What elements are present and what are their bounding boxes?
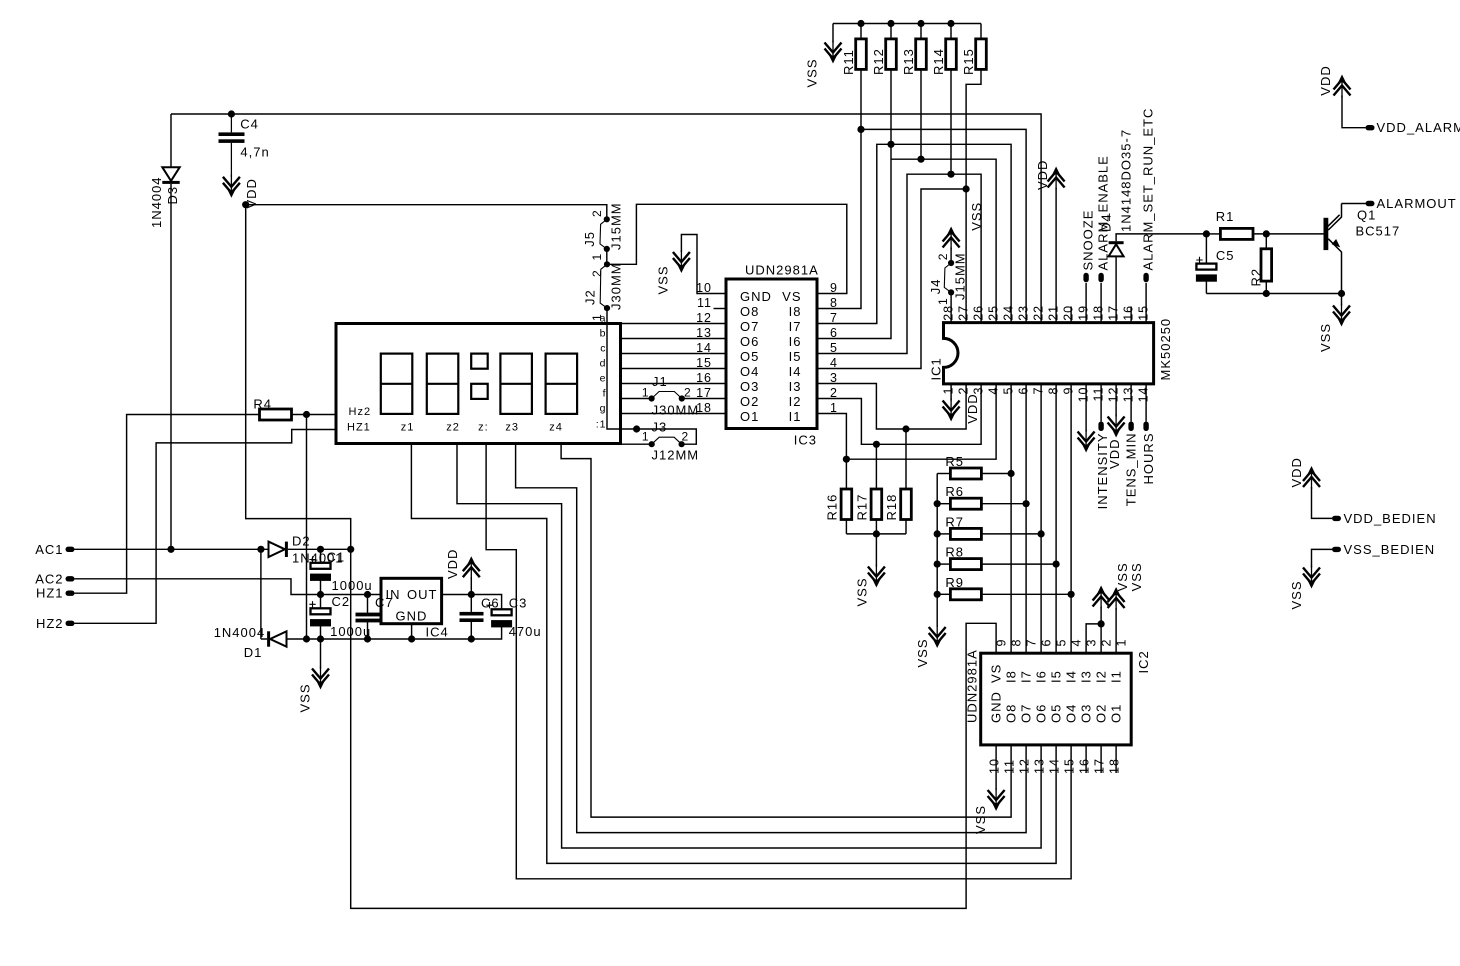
svg-text:IC2: IC2: [1136, 650, 1151, 673]
svg-text:6: 6: [1017, 387, 1031, 395]
supply VSS arrow IC1 pin10: [1078, 430, 1095, 453]
wire AC2 input to IC4 IN: [75, 579, 382, 595]
junction R17 bottom: [873, 530, 880, 537]
supply VDD arrow below C4: [223, 175, 240, 198]
diode D3 wire upper: [170, 114, 172, 167]
wire VDD to VDD_ALARM pad: [1342, 96, 1366, 128]
svg-text:16: 16: [1122, 305, 1136, 321]
wire net z3 to IC2 pin 12: [516, 444, 1027, 833]
svg-text:2: 2: [936, 253, 950, 261]
resistor R4: [260, 409, 292, 420]
resistor R18: [901, 489, 912, 520]
supply VSS arrow IC3 pin10: [673, 250, 690, 273]
svg-text:z4: z4: [549, 422, 563, 434]
svg-text:1N4004: 1N4004: [214, 625, 266, 640]
svg-text:GND: GND: [740, 289, 772, 304]
svg-text:I8: I8: [1004, 670, 1019, 683]
wire IC3 pin10 GND to VSS: [681, 235, 726, 294]
wire R13 vertical: [920, 69, 922, 159]
wire IC1 pin13 TENS_MIN stub: [1130, 384, 1132, 422]
svg-text:O8: O8: [740, 304, 759, 319]
display digit z1: [381, 354, 413, 414]
svg-text::1: :1: [596, 419, 607, 431]
junction IC2 pin2/pin3: [1098, 620, 1105, 627]
svg-text:D4: D4: [1099, 213, 1114, 232]
connector AC1 pad: [66, 547, 75, 552]
svg-text:VDD: VDD: [445, 549, 460, 579]
supply VSS arrow below R17: [868, 565, 885, 588]
svg-text:g: g: [600, 403, 607, 415]
svg-text:C5: C5: [1216, 248, 1235, 263]
svg-text:VSS_BEDIEN: VSS_BEDIEN: [1344, 542, 1436, 557]
svg-text:ALARM_ENABLE: ALARM_ENABLE: [1096, 155, 1111, 270]
wire R17 top lead: [875, 444, 877, 489]
junction D2/VDD-drop: [347, 546, 354, 553]
wire Q1 collector to ALARMOUT: [1342, 203, 1366, 205]
supply VDD arrow VDD_BEDIEN: [1303, 466, 1320, 489]
wire J5 pin1 to J2 pin2: [606, 249, 608, 264]
jumper J4: [944, 260, 954, 296]
wire D1 cathode: [261, 638, 267, 640]
supply VDD arrow VDD_ALARM: [1334, 75, 1351, 98]
connector VDD_BEDIEN pad: [1332, 516, 1341, 521]
svg-text:1: 1: [942, 387, 956, 395]
wire net z4 to IC2 pin 11: [561, 444, 1011, 818]
svg-text:I5: I5: [789, 349, 802, 364]
svg-text:f: f: [603, 388, 607, 400]
svg-text:28: 28: [942, 305, 956, 321]
svg-text:J3: J3: [652, 420, 668, 435]
junction C2 bottom: [317, 635, 324, 642]
junction AC1/D1 branch: [257, 546, 264, 553]
resistor R8: [950, 559, 981, 570]
resistor R1: [1220, 228, 1253, 239]
svg-text:R14: R14: [931, 48, 946, 75]
supply VSS arrow below R-bus: [929, 625, 946, 648]
wire D2 cathode to VDD node: [288, 548, 351, 550]
svg-text:D2: D2: [292, 534, 311, 549]
wire segment f display to J1 pin1: [621, 398, 652, 400]
supply VDD arrow at IC4 OUT: [463, 556, 480, 579]
svg-text:24: 24: [1002, 305, 1016, 321]
svg-text:R13: R13: [901, 48, 916, 75]
svg-text:O4: O4: [740, 364, 759, 379]
connector AC2 pad: [66, 576, 75, 581]
voltage regulator IC4 box: [381, 578, 442, 623]
svg-text:2: 2: [957, 387, 971, 395]
wire segment d display to IC3: [621, 368, 727, 370]
svg-text:22: 22: [1032, 305, 1046, 321]
svg-text:21: 21: [1047, 305, 1061, 321]
svg-text:17: 17: [1093, 758, 1107, 774]
svg-text:z2: z2: [446, 422, 460, 434]
svg-text:12: 12: [1107, 387, 1121, 403]
svg-text:VS: VS: [989, 664, 1004, 683]
jumper J3: [649, 437, 685, 447]
connector VSS_BEDIEN pad: [1332, 547, 1341, 552]
wire AC1 down to D1: [260, 549, 262, 639]
svg-text:J12MM: J12MM: [652, 448, 700, 463]
svg-text:7: 7: [830, 311, 838, 325]
svg-text:AC2: AC2: [35, 571, 63, 586]
junction R6 right: [1023, 500, 1030, 507]
svg-text:VSS: VSS: [969, 202, 984, 231]
capacitor C7: [356, 613, 380, 623]
svg-text:R5: R5: [945, 454, 964, 469]
svg-text:O1: O1: [1109, 704, 1124, 723]
svg-text:16: 16: [1078, 758, 1092, 774]
wire IC1 pin20 stub: [1070, 307, 1072, 323]
diode D2: [269, 542, 288, 557]
resistor R16: [841, 489, 852, 520]
wire IC1 pin11 INTENSITY stub: [1100, 384, 1102, 422]
diode D3: [162, 167, 179, 184]
junction R18 top: [902, 425, 909, 432]
wire J2 pin1 into display to colon row: [607, 308, 621, 429]
svg-text:C4: C4: [240, 117, 259, 132]
connector ALARM_ENABLE pad: [1098, 273, 1103, 283]
junction C6 top / OUT: [468, 591, 475, 598]
svg-text:O2: O2: [740, 394, 759, 409]
wire R16 top lead: [845, 459, 847, 489]
svg-text:b: b: [600, 328, 607, 340]
wire IC1 pin18 ALARM_ENABLE stub: [1100, 283, 1102, 323]
connector HOURS pad: [1143, 422, 1148, 432]
junction C7 top: [364, 591, 371, 598]
svg-text:O8: O8: [1004, 704, 1019, 723]
svg-text:z3: z3: [505, 422, 519, 434]
svg-text:HZ1: HZ1: [347, 422, 371, 434]
svg-text:1N4148DO35-7: 1N4148DO35-7: [1119, 129, 1134, 232]
svg-text:VSS: VSS: [973, 805, 988, 834]
diode D4: [1109, 241, 1124, 256]
wire VS rail D2-node to IC2 pin 9: [351, 549, 996, 908]
wire segment a display to IC3: [621, 323, 727, 325]
supply VDD arrow IC1 pin21: [1048, 167, 1065, 190]
junction R9 right: [1068, 591, 1075, 598]
wire IC3 pin11 stub: [714, 308, 727, 310]
svg-text:D1: D1: [244, 645, 263, 660]
svg-text:470u: 470u: [509, 624, 542, 639]
jumper J1: [649, 392, 685, 402]
wire IC1 pin6 to IC2 pin7: [1025, 384, 1027, 653]
junction R13 row3: [917, 156, 924, 163]
svg-text:I5: I5: [1049, 670, 1064, 683]
wire IC3 pin7 riser row2 to IC1 pin 24: [817, 144, 1011, 323]
wire IC3 pin3 to IC1 pin2: [817, 384, 966, 430]
wire segment g display to IC3: [621, 413, 727, 415]
connector ALARMOUT pad: [1366, 201, 1375, 206]
resistor R5: [950, 468, 981, 479]
svg-text:C3: C3: [509, 596, 528, 611]
resistor R11: [856, 39, 867, 70]
svg-text:HZ1: HZ1: [36, 586, 64, 601]
svg-text:C2: C2: [332, 594, 351, 609]
svg-text:J4: J4: [928, 278, 943, 294]
svg-text:1: 1: [642, 386, 650, 400]
wire D4 to R1 node: [1116, 234, 1206, 241]
display module outline: [336, 324, 621, 444]
svg-text:2: 2: [684, 386, 692, 400]
wire row1 to IC1 pin 23: [861, 129, 1026, 322]
svg-text:R17: R17: [854, 494, 869, 521]
svg-text:VSS: VSS: [1129, 562, 1144, 591]
wire R7 right lead: [981, 533, 1041, 535]
capacitor C6: [460, 612, 484, 622]
svg-text:R2: R2: [1249, 268, 1264, 287]
svg-text:I2: I2: [1094, 670, 1109, 683]
wire IC4 GND pin: [411, 624, 413, 639]
junction row6 on pin27 line: [963, 185, 970, 192]
junction R11 row1: [857, 126, 864, 133]
wire R17 VSS stem: [875, 534, 877, 567]
svg-text:R4: R4: [253, 397, 272, 412]
op-amp/driver IC3 UDN2981A box: [726, 279, 817, 429]
wire IC2 pin17 stub: [1100, 745, 1102, 773]
svg-text:I1: I1: [1109, 670, 1124, 683]
wire R8 left lead: [937, 563, 950, 565]
svg-text:1: 1: [642, 430, 650, 444]
svg-text:R8: R8: [945, 545, 964, 560]
supply VSS arrow IC1 pin1: [943, 399, 960, 422]
svg-text:R16: R16: [824, 494, 839, 521]
junction R12 row2: [887, 141, 894, 148]
wire R1 left lead: [1206, 233, 1220, 235]
svg-text:13: 13: [1122, 387, 1136, 403]
wire J1 pin2 to IC3 pin17: [682, 398, 726, 400]
svg-text:R12: R12: [871, 48, 886, 75]
resistor R6: [950, 498, 981, 509]
wire IC1 pin10 VSS stem: [1085, 384, 1087, 432]
svg-text:VSS: VSS: [655, 265, 670, 294]
svg-text:J2: J2: [583, 289, 598, 305]
wire IC1 pin1 VSS stem: [950, 384, 952, 401]
junction C6 bottom: [468, 635, 475, 642]
wire R6 right lead: [981, 503, 1026, 505]
wire R7 left lead: [937, 533, 950, 535]
svg-text:R9: R9: [945, 575, 964, 590]
svg-text:I2: I2: [789, 394, 802, 409]
junction R11 top: [857, 20, 864, 27]
wire D1 anode rail (GND rail): [287, 625, 502, 639]
svg-text:I6: I6: [789, 334, 802, 349]
svg-text:BC517: BC517: [1356, 224, 1401, 239]
svg-text:VDD: VDD: [965, 393, 980, 423]
junction VDD node: [242, 201, 249, 208]
wire R14 vertical: [950, 69, 952, 174]
supply VSS arrow above J4: [943, 227, 960, 250]
wire IC1 pin14 HOURS stub: [1145, 384, 1147, 422]
junction R7 right: [1038, 530, 1045, 537]
wire segment c display to IC3: [621, 353, 727, 355]
wire R9 right lead: [981, 593, 1071, 595]
svg-text:O4: O4: [1064, 704, 1079, 723]
svg-text:UDN2981A: UDN2981A: [965, 649, 980, 723]
svg-text:Hz2: Hz2: [349, 406, 372, 418]
svg-text:1: 1: [936, 297, 950, 305]
transistor Q1 BC517: [1324, 204, 1342, 294]
svg-text:I6: I6: [1034, 670, 1049, 683]
svg-text:26: 26: [972, 305, 986, 321]
wire R1 to Q1 base: [1253, 233, 1324, 235]
diode D1: [267, 631, 286, 646]
svg-text:2: 2: [590, 209, 604, 217]
wire Q1 emitter rail: [1206, 293, 1341, 295]
junction R13 top: [917, 20, 924, 27]
junction AC1/D3: [167, 546, 174, 553]
connector TENS_MIN pad: [1128, 422, 1133, 432]
junction C1 top: [317, 546, 324, 553]
svg-text:VDD: VDD: [1318, 65, 1333, 95]
svg-text:8: 8: [830, 296, 838, 310]
wire IC1 pin9 to IC2 pin4: [1070, 384, 1072, 653]
svg-text:1: 1: [590, 253, 604, 261]
svg-text:e: e: [600, 373, 607, 385]
wire VSS_BEDIEN pad to VSS: [1312, 549, 1333, 567]
wire IC3 pin5 riser row to IC1 pin 26: [817, 174, 981, 353]
junction R4-line on rail: [303, 635, 310, 642]
capacitor C3: [486, 602, 492, 608]
svg-text:I7: I7: [1019, 670, 1034, 683]
supply VSS arrow IC2 pin2 (up): [1093, 586, 1110, 609]
svg-text:20: 20: [1062, 305, 1076, 321]
wire R11/I8 vertical to IC3 pin 8: [817, 69, 861, 308]
wire IC4 OUT rail: [442, 595, 502, 610]
wire IC1 pin28 to J4: [950, 292, 952, 322]
resistor R14: [946, 39, 957, 70]
svg-text:HZ2: HZ2: [36, 616, 64, 631]
junction C2 top: [317, 591, 324, 598]
svg-text:I3: I3: [789, 379, 802, 394]
wire C2 VSS stem: [320, 639, 322, 669]
svg-text:MK50250: MK50250: [1158, 318, 1173, 381]
svg-text:c: c: [600, 343, 606, 355]
wire HZ1 input to R4: [75, 415, 260, 594]
wire IC1 pin12 VDD stem: [1115, 384, 1117, 417]
svg-text:SNOOZE: SNOOZE: [1081, 210, 1096, 271]
wire IC1 pin21 VDD stem: [1055, 188, 1057, 323]
svg-text:VSS: VSS: [1115, 562, 1130, 591]
wire VSS stem below Q1: [1341, 294, 1343, 306]
wire IC1 pin19 SNOOZE stub: [1085, 283, 1087, 323]
display colon squares: [471, 354, 488, 399]
svg-text:VSS: VSS: [1318, 323, 1333, 352]
svg-text:10: 10: [988, 758, 1002, 774]
display digit z4: [546, 354, 578, 414]
svg-text:VSS: VSS: [804, 58, 819, 87]
svg-text:VDD: VDD: [1035, 160, 1050, 190]
svg-text:O2: O2: [1094, 704, 1109, 723]
capacitor C1: [309, 556, 315, 562]
svg-text:VSS: VSS: [1289, 580, 1304, 609]
svg-text:R1: R1: [1216, 209, 1235, 224]
wire R9 left lead: [937, 593, 950, 595]
svg-text:O3: O3: [1079, 704, 1094, 723]
wire VDD to VDD_BEDIEN pad: [1312, 487, 1333, 518]
wire R2 top lead: [1265, 234, 1267, 249]
svg-text:27: 27: [957, 305, 971, 321]
svg-text:d: d: [600, 358, 607, 370]
svg-text:11: 11: [1092, 387, 1106, 402]
svg-text:VSS: VSS: [298, 683, 313, 712]
svg-text:O7: O7: [1019, 704, 1034, 723]
svg-text:6: 6: [830, 326, 838, 340]
wire net z1 to IC2 pin 14: [411, 444, 1056, 864]
svg-text:I4: I4: [789, 364, 802, 379]
supply VSS arrow below Q1: [1333, 304, 1350, 327]
wire IC2 pin10 VSS stem: [995, 745, 997, 790]
svg-text:8: 8: [1010, 639, 1024, 647]
junction R14 top: [947, 20, 954, 27]
svg-text:GND: GND: [989, 691, 1004, 723]
svg-text:17: 17: [1107, 305, 1121, 321]
wire R6 left lead: [937, 503, 950, 505]
svg-text:I4: I4: [1064, 670, 1079, 683]
svg-text:4,7n: 4,7n: [240, 145, 269, 160]
svg-text:6: 6: [1040, 639, 1054, 647]
wire R4 to display Hz2: [292, 414, 337, 416]
svg-text:7: 7: [1025, 639, 1039, 647]
junction R9 left: [934, 591, 941, 598]
junction R16 top: [843, 456, 850, 463]
supply VSS arrow IC2 pin1 (up): [1108, 587, 1125, 610]
wire R2 bottom lead: [1265, 281, 1267, 293]
svg-text:8: 8: [1047, 387, 1061, 395]
connector INTENSITY pad: [1098, 422, 1103, 432]
svg-text:9: 9: [1062, 387, 1076, 395]
svg-text:VS: VS: [782, 289, 801, 304]
svg-text:I8: I8: [789, 304, 802, 319]
wire IC2 pin2 VSS stem: [1100, 607, 1102, 654]
wire VDD rail to J5: [246, 205, 607, 220]
supply VSS arrow below C2: [312, 667, 329, 690]
wire D3 to AC1 line: [170, 184, 172, 549]
wire net z-colon to IC2 pin 15: [486, 444, 1071, 879]
wire colon :1 to J3 pin2: [621, 429, 697, 444]
junction R6 left: [934, 500, 941, 507]
resistor R12: [886, 39, 897, 70]
svg-text:J15MM: J15MM: [953, 252, 968, 300]
wire IC1 pin7 to IC2 pin6: [1040, 384, 1042, 653]
wire R15 jog down to IC1 pin 27: [966, 69, 981, 322]
svg-text:1N4004: 1N4004: [149, 176, 164, 228]
svg-text:9: 9: [995, 639, 1009, 647]
resistor R7: [950, 528, 981, 539]
capacitor C2: [309, 601, 315, 607]
wire IC2 pin16 stub: [1085, 745, 1087, 773]
wire IC1 pin5 to IC2 pin8: [1010, 384, 1012, 653]
junction Q1 emitter / VSS: [1338, 290, 1345, 297]
svg-text:HOURS: HOURS: [1141, 433, 1156, 485]
svg-text:Q1: Q1: [1357, 208, 1376, 223]
svg-text:14: 14: [1137, 387, 1151, 403]
svg-text:I7: I7: [789, 319, 802, 334]
svg-text:5: 5: [1002, 387, 1016, 395]
wire VDD stem at IC4 OUT: [470, 577, 472, 594]
svg-text:O5: O5: [1049, 704, 1064, 723]
svg-text:5: 5: [830, 341, 838, 355]
svg-text:VDD_ALARM: VDD_ALARM: [1377, 120, 1460, 135]
supply VSS arrow IC2 pin10: [988, 788, 1005, 811]
svg-text:AC1: AC1: [35, 542, 63, 557]
capacitor C5: [1196, 257, 1202, 263]
wire R12/I6 vertical to IC3 pin 6: [817, 69, 891, 338]
svg-text:VDD: VDD: [1289, 457, 1304, 487]
wire HZ2 input to display HZ1: [75, 430, 337, 624]
svg-text:3: 3: [972, 387, 986, 395]
connector HZ2 pad: [66, 621, 75, 626]
connector ALARM_SET_RUN_ETC pad: [1143, 273, 1148, 283]
